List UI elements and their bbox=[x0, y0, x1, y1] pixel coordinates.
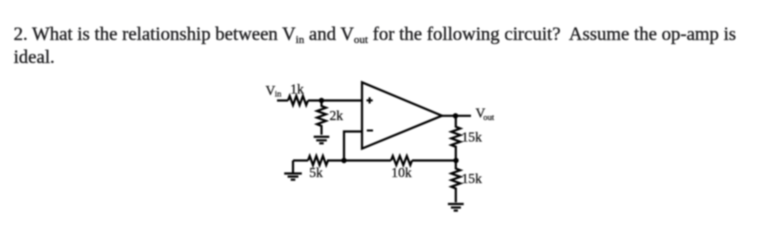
svg-text:2k: 2k bbox=[330, 108, 344, 123]
svg-text:5k: 5k bbox=[309, 165, 323, 180]
svg-text:1k: 1k bbox=[290, 82, 304, 97]
svg-text:15k: 15k bbox=[462, 171, 483, 186]
svg-text:15k: 15k bbox=[462, 129, 483, 144]
svg-text:10k: 10k bbox=[391, 165, 412, 180]
svg-text:in: in bbox=[275, 89, 282, 99]
svg-text:out: out bbox=[483, 112, 495, 122]
